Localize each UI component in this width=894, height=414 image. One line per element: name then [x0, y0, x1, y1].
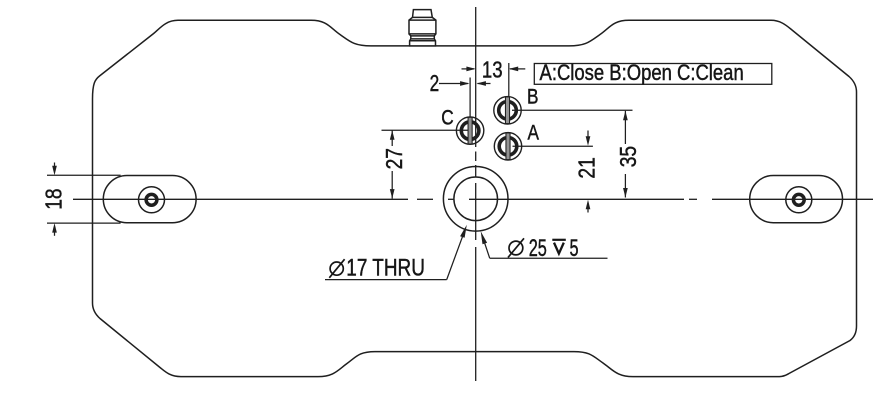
- leader diagonal d17: [447, 230, 465, 280]
- arrow dim35 top: [623, 111, 628, 121]
- dim2 line left: [439, 83, 468, 85]
- C leader line / dim27 extension: [382, 129, 469, 131]
- svg-text:27: 27: [381, 148, 407, 169]
- svg-text:2: 2: [430, 72, 440, 97]
- right slot obround: [750, 176, 843, 223]
- depth symbol vee: [554, 243, 564, 254]
- depth symbol bar: [552, 239, 566, 241]
- svg-text:35: 35: [615, 146, 641, 167]
- dim35 line lower: [624, 174, 626, 198]
- fitting line base top: [410, 40, 436, 42]
- dim2 line right: [478, 83, 491, 85]
- svg-text:B: B: [527, 86, 538, 109]
- arrow leader d25: [481, 231, 487, 244]
- leader underline d25: [490, 257, 608, 259]
- fitting line cap bottom: [413, 16, 433, 18]
- horizontal centerline: [73, 198, 873, 200]
- svg-text:17 THRU: 17 THRU: [346, 253, 425, 281]
- arrow dim18 top: [52, 166, 57, 176]
- arrow dim21 bottom: [586, 200, 591, 210]
- dim18 extension bottom: [47, 222, 121, 224]
- arrow dim35 bottom: [623, 188, 628, 198]
- dim18 arrow tail bottom: [54, 228, 56, 236]
- arrow dim13 left: [466, 67, 476, 72]
- fitting line neck bottom: [411, 38, 435, 40]
- arrow dim18 bottom: [52, 223, 57, 233]
- screw B: [494, 97, 521, 124]
- svg-text:A: A: [527, 122, 539, 145]
- note box: [534, 64, 772, 85]
- plate outline: [93, 20, 857, 376]
- right slot circle outer: [786, 187, 812, 213]
- svg-text:5: 5: [570, 235, 579, 262]
- left slot obround: [103, 176, 196, 223]
- center hole inner: [454, 177, 498, 221]
- dim27 line upper: [391, 130, 393, 146]
- arrow dim2 right: [476, 81, 486, 86]
- leader diagonal d25: [483, 239, 490, 259]
- svg-text:A:Close B:Open C:Clean: A:Close B:Open C:Clean: [540, 61, 744, 85]
- dim21 upper stub: [587, 131, 589, 141]
- fitting body: [409, 10, 436, 46]
- vertical centerline: [475, 7, 477, 381]
- A leader line / dim21 extension: [513, 145, 593, 147]
- svg-text:C: C: [441, 107, 454, 130]
- svg-text:25: 25: [529, 235, 547, 262]
- left slot circle inner: [146, 194, 157, 205]
- svg-text:21: 21: [574, 157, 600, 178]
- arrow dim27 top: [390, 130, 395, 140]
- arrow dim2 left: [460, 81, 470, 86]
- left slot circle outer: [139, 187, 165, 213]
- right slot circle inner: [793, 194, 804, 205]
- dim13 line right: [510, 68, 525, 70]
- screw A: [494, 133, 521, 160]
- fitting line body bottom: [409, 33, 436, 35]
- extension line B vertical: [508, 63, 510, 97]
- screw C: [456, 117, 483, 144]
- dim13 line left: [462, 68, 475, 70]
- leader underline d17: [325, 279, 447, 281]
- arrow leader d17: [460, 225, 467, 238]
- fitting line neck top: [411, 35, 435, 37]
- center hole outer: [443, 167, 508, 232]
- diameter symbol d25: [509, 241, 523, 255]
- dim27 line lower: [391, 171, 393, 199]
- extension line C vertical: [469, 78, 471, 118]
- arrow dim27 bottom: [390, 189, 395, 199]
- fitting line body top: [409, 19, 436, 21]
- B leader line / dim35 extension: [512, 109, 633, 111]
- dim18 extension top: [47, 174, 121, 176]
- diameter symbol d17: [330, 262, 343, 275]
- dim18 arrow tail top: [54, 163, 56, 171]
- arrow dim13 right: [509, 67, 519, 72]
- dim35 line upper: [624, 111, 626, 144]
- dim21 lower stub: [587, 205, 589, 213]
- svg-text:13: 13: [482, 58, 503, 83]
- svg-text:18: 18: [41, 188, 67, 209]
- arrow dim21 top: [586, 136, 591, 146]
